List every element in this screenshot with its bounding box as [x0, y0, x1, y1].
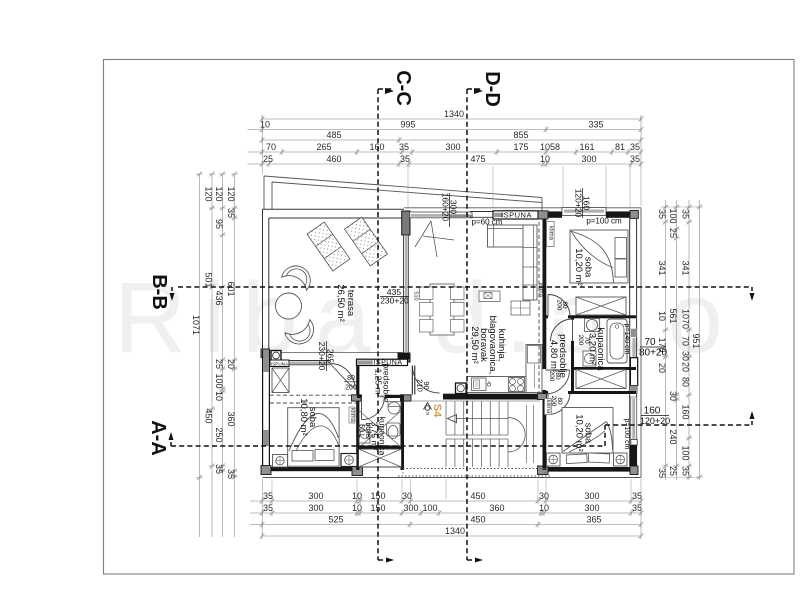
- svg-text:35: 35: [399, 142, 409, 152]
- roof canopy slant outer: [264, 176, 542, 198]
- svg-text:35: 35: [630, 154, 640, 164]
- ISPUNA infill panel top: [493, 211, 538, 219]
- corner pier NE: [630, 210, 638, 218]
- svg-text:335: 335: [588, 120, 603, 130]
- svg-text:klima: klima: [349, 408, 355, 423]
- dimension row y=140: [262, 139, 641, 141]
- guide lines to dimensions: [262, 115, 264, 174]
- bathroom right wall: [401, 395, 405, 471]
- stairs top boundary: [411, 400, 540, 402]
- bedroom BL bottom wall: [265, 467, 356, 471]
- round table: [276, 293, 302, 319]
- svg-text:120: 120: [204, 186, 214, 201]
- bedroom window p=100: [631, 397, 637, 440]
- svg-text:35: 35: [657, 209, 667, 219]
- svg-text:35: 35: [681, 209, 691, 219]
- svg-text:160: 160: [644, 406, 661, 417]
- svg-text:80+20: 80+20: [639, 348, 668, 359]
- bath top wall door gap: [548, 315, 568, 319]
- door hall to bathroom: [551, 319, 573, 341]
- svg-text:A-A: A-A: [147, 420, 169, 456]
- svg-text:30: 30: [668, 391, 678, 401]
- pier SW bedroom BL: [261, 466, 271, 475]
- svg-text:436: 436: [214, 290, 224, 305]
- grid cabinet: [511, 301, 530, 315]
- small bath door gap: [362, 394, 385, 398]
- svg-text:230+20: 230+20: [380, 296, 409, 306]
- dimension row y=536: [262, 535, 641, 537]
- kitchen bottom wall: [443, 394, 538, 400]
- right wall gray cap: [631, 329, 637, 337]
- kitchen counter: [467, 377, 526, 393]
- svg-text:10: 10: [352, 491, 362, 501]
- svg-text:1071: 1071: [191, 315, 201, 335]
- svg-text:200: 200: [548, 371, 555, 382]
- svg-text:120+20: 120+20: [640, 416, 670, 426]
- svg-text:300: 300: [308, 503, 323, 513]
- svg-text:120+20: 120+20: [574, 189, 584, 218]
- svg-text:601: 601: [226, 281, 236, 296]
- bedroom BL door leaf and arc: [330, 364, 355, 389]
- svg-text:300: 300: [584, 491, 599, 501]
- pier kitchen wall east: [538, 394, 547, 400]
- crescent chair 1: [281, 260, 316, 292]
- washbasin: [585, 319, 600, 332]
- klima bedroom BL: [349, 407, 355, 423]
- roof overhang bottom: [263, 477, 642, 479]
- svg-text:80: 80: [347, 375, 355, 382]
- dimension row y=164: [248, 163, 642, 165]
- svg-text:35: 35: [263, 503, 273, 513]
- shower diagonals: [360, 411, 402, 447]
- ISPUNA big panel hall: [357, 359, 408, 365]
- sink: [472, 378, 487, 391]
- svg-text:10: 10: [352, 503, 362, 513]
- svg-text:561: 561: [668, 308, 678, 323]
- svg-text:10: 10: [540, 154, 550, 164]
- svg-text:160+20: 160+20: [441, 193, 451, 222]
- svg-text:230+20: 230+20: [317, 342, 327, 371]
- bedroom BL left wall double line: [262, 350, 264, 466]
- svg-text:p=140 cm: p=140 cm: [623, 324, 630, 355]
- bed TR: [570, 230, 628, 283]
- bathroom bottom wall: [571, 367, 636, 370]
- dimension row y=119: [262, 118, 641, 120]
- svg-text:1340: 1340: [445, 526, 465, 536]
- svg-text:95: 95: [214, 219, 224, 229]
- svg-text:30: 30: [539, 491, 549, 501]
- svg-text:265: 265: [316, 142, 331, 152]
- svg-text:450: 450: [470, 515, 485, 525]
- svg-text:240: 240: [668, 429, 678, 444]
- svg-text:300: 300: [581, 154, 596, 164]
- corner sofa horizontal: [488, 225, 525, 247]
- svg-text:210: 210: [416, 379, 425, 392]
- svg-text:20: 20: [657, 363, 667, 373]
- beam line over kitchen: [538, 222, 540, 394]
- svg-text:klima: klima: [547, 226, 553, 241]
- svg-text:35: 35: [263, 491, 273, 501]
- svg-text:300: 300: [308, 491, 323, 501]
- terrace floor edge: [263, 352, 403, 354]
- svg-text:100: 100: [668, 208, 678, 223]
- stove: [509, 378, 525, 392]
- door hall to bedroom BR: [548, 393, 570, 415]
- svg-text:35: 35: [632, 503, 642, 513]
- sun lounger 1: [307, 222, 350, 271]
- hall/bath wall vertical: [571, 341, 574, 394]
- dimension column x=689: [688, 200, 690, 480]
- dimension column x=222.5: [222, 174, 224, 537]
- dimension column x=676.5: [676, 200, 678, 480]
- dimension row y=513: [250, 512, 641, 514]
- svg-text:365: 365: [586, 515, 601, 525]
- svg-text:160: 160: [681, 404, 691, 419]
- svg-text:855: 855: [513, 130, 528, 140]
- svg-text:25: 25: [263, 154, 273, 164]
- stairs mid rails: [446, 434, 508, 436]
- svg-text:10: 10: [214, 391, 224, 401]
- door living to hall: [546, 370, 570, 394]
- svg-text:951: 951: [691, 333, 701, 348]
- pier top of living window: [402, 211, 410, 235]
- svg-text:ISPUNA: ISPUNA: [271, 361, 289, 366]
- small bath bottom wall: [357, 446, 403, 449]
- column w circle terrace: [271, 351, 281, 361]
- klima unit top: [547, 222, 555, 247]
- svg-text:70: 70: [644, 337, 656, 348]
- svg-text:35: 35: [400, 154, 410, 164]
- dimension column x=234.5: [234, 174, 236, 537]
- svg-text:p=100 cm: p=100 cm: [586, 217, 622, 226]
- small bath door arc: [362, 397, 385, 420]
- small bath top wall: [357, 395, 403, 398]
- wardrobe BL: [272, 368, 289, 393]
- window end cap: [631, 440, 637, 446]
- terrace door arc: [413, 366, 440, 393]
- page frame: [104, 60, 795, 575]
- svg-text:25: 25: [668, 228, 678, 238]
- kitchen island: [526, 345, 542, 393]
- svg-text:341: 341: [657, 260, 667, 275]
- sun lounger 2: [344, 217, 387, 266]
- svg-text:35: 35: [226, 208, 236, 218]
- stairs treads lower: [445, 439, 447, 467]
- dimension row y=152: [248, 151, 642, 153]
- svg-text:460: 460: [326, 154, 341, 164]
- bottom wall bedroom BR: [546, 467, 630, 472]
- bedroom BL window: [289, 360, 330, 362]
- svg-text:300: 300: [584, 503, 599, 513]
- right wall double line: [629, 218, 631, 466]
- svg-text:510: 510: [413, 291, 419, 300]
- dimension column x=212: [211, 174, 213, 537]
- svg-text:ISPUNA: ISPUNA: [501, 211, 532, 220]
- svg-text:29,50 m²: 29,50 m²: [469, 326, 480, 364]
- svg-text:10,80 m²: 10,80 m²: [298, 398, 309, 436]
- wardrobe TR: [576, 297, 626, 315]
- pier SW of bedroom BR: [538, 466, 549, 475]
- bedroom BL right wall: [356, 363, 359, 470]
- svg-text:100: 100: [681, 445, 691, 460]
- nightstand BL right: [341, 454, 357, 467]
- svg-text:10: 10: [657, 311, 667, 321]
- svg-text:995: 995: [400, 120, 415, 130]
- level symbol: [424, 403, 432, 410]
- top wall window p=60: [410, 212, 473, 218]
- right wall gray block: [630, 386, 637, 394]
- top window 160/120+20: [562, 208, 606, 216]
- roof overhang right: [640, 208, 642, 478]
- stairs treads upper: [445, 401, 447, 435]
- svg-text:250: 250: [214, 427, 224, 442]
- svg-text:35: 35: [632, 491, 642, 501]
- svg-text:341: 341: [681, 260, 691, 275]
- right wall white pier: [630, 358, 637, 386]
- porch dotted lines: [403, 468, 545, 470]
- svg-text:360: 360: [226, 411, 236, 426]
- TV cabinet: [479, 291, 500, 302]
- svg-text:35: 35: [226, 469, 236, 479]
- beam line over bedroom BL: [270, 394, 356, 396]
- svg-text:1058: 1058: [540, 142, 560, 152]
- svg-text:35: 35: [657, 468, 667, 478]
- svg-text:300: 300: [403, 503, 418, 513]
- svg-text:35: 35: [681, 466, 691, 476]
- svg-text:26,50 m²: 26,50 m²: [335, 284, 346, 322]
- svg-text:160: 160: [369, 142, 384, 152]
- top wall segment: [548, 211, 562, 217]
- pier left of stairs door: [352, 395, 362, 401]
- boiler bathroom: [583, 351, 596, 366]
- svg-text:C-C: C-C: [392, 70, 414, 106]
- svg-text:175: 175: [513, 142, 528, 152]
- pier NW bedroom BL: [261, 349, 270, 358]
- svg-text:100: 100: [214, 373, 224, 388]
- svg-text:S4: S4: [431, 404, 443, 418]
- svg-text:450: 450: [204, 408, 214, 423]
- ISPUNA small panel: [270, 360, 289, 367]
- section line B-B: [178, 286, 752, 288]
- bathtub: [607, 319, 627, 363]
- living-terrace window: [403, 235, 405, 353]
- svg-text:35: 35: [214, 464, 224, 474]
- dimension column x=199.5: [199, 174, 201, 537]
- svg-text:80: 80: [681, 377, 691, 387]
- svg-text:30: 30: [402, 491, 412, 501]
- svg-text:25: 25: [214, 359, 224, 369]
- stairs walk line + arrow: [456, 418, 508, 420]
- pier right of ISPUNA: [538, 211, 548, 219]
- pier SE corner: [630, 466, 638, 475]
- bed BL: [288, 408, 339, 467]
- svg-text:200: 200: [345, 385, 357, 392]
- svg-text:475: 475: [470, 154, 485, 164]
- svg-text:120: 120: [226, 186, 236, 201]
- svg-text:D-D: D-D: [481, 71, 503, 107]
- terrace parapet top: [263, 208, 405, 210]
- svg-text:20: 20: [226, 359, 236, 369]
- svg-text:70: 70: [681, 336, 691, 346]
- stairs U-turn arc: [508, 418, 525, 453]
- window tilt symbol: [415, 221, 431, 247]
- svg-text:35: 35: [630, 142, 640, 152]
- top wall segment 2: [606, 211, 630, 217]
- svg-text:200: 200: [556, 300, 563, 311]
- svg-text:120: 120: [214, 186, 224, 201]
- pier bottom of living window: [398, 353, 410, 362]
- svg-text:20: 20: [681, 362, 691, 372]
- svg-text:485: 485: [326, 130, 341, 140]
- svg-text:525: 525: [328, 515, 343, 525]
- dining chairs right: [451, 287, 465, 300]
- bathroom window p=140: [632, 338, 635, 357]
- svg-text:300: 300: [445, 142, 460, 152]
- dishwasher: [456, 383, 467, 394]
- void under stairs X-box: [359, 449, 402, 467]
- svg-text:360: 360: [489, 503, 504, 513]
- dining table: [430, 284, 454, 335]
- dimension column x=665.5: [665, 200, 667, 480]
- wall left of bedroom BR: [543, 390, 547, 470]
- svg-text:10: 10: [260, 120, 270, 130]
- nightstand BL left: [273, 455, 288, 468]
- svg-text:70: 70: [266, 142, 276, 152]
- WC small bath: [387, 423, 401, 436]
- terrace door pier: [399, 353, 411, 360]
- section line A-A (with jog): [171, 445, 605, 447]
- roof canopy slant inner: [272, 182, 542, 203]
- boiler small bath: [359, 425, 370, 443]
- pier at stairs door: [401, 395, 412, 401]
- svg-text:B-B: B-B: [148, 274, 170, 310]
- svg-text:81: 81: [615, 142, 625, 152]
- section line D-D: [466, 89, 468, 560]
- svg-text:p=100 cm: p=100 cm: [623, 419, 630, 450]
- door hall to bedroom TR: [548, 295, 570, 317]
- svg-text:10,20 m²: 10,20 m²: [573, 248, 584, 286]
- nightstand BR right: [614, 453, 628, 466]
- BR top wall door gap: [548, 391, 568, 395]
- svg-text:200: 200: [550, 396, 557, 407]
- klima hall: [545, 399, 552, 415]
- svg-text:501: 501: [204, 272, 214, 287]
- dimension row y=501: [250, 500, 641, 502]
- canopy left edge: [263, 176, 265, 209]
- svg-text:klima: klima: [537, 283, 543, 298]
- bed BR: [562, 408, 613, 454]
- dining chairs left: [420, 287, 434, 300]
- hall right wall thin: [411, 366, 413, 395]
- canopy right edge: [541, 198, 543, 212]
- svg-text:p=60 cm: p=60 cm: [472, 218, 503, 227]
- right wall solid segment 3: [630, 445, 637, 466]
- wardrobe BR: [576, 370, 626, 389]
- svg-text:450: 450: [470, 491, 485, 501]
- svg-text:200: 200: [577, 335, 584, 346]
- svg-text:1070: 1070: [681, 309, 691, 329]
- dimension row y=129.5: [248, 129, 642, 131]
- living/hall wall: [543, 219, 547, 370]
- svg-text:50 L: 50 L: [358, 424, 365, 438]
- roof overhang top: [404, 207, 641, 209]
- nightstand BR left: [547, 453, 561, 466]
- bathroom top wall: [544, 315, 636, 318]
- svg-text:25: 25: [668, 466, 678, 476]
- corner sofa vertical: [523, 225, 537, 300]
- svg-text:4,80 m²: 4,80 m²: [548, 340, 559, 372]
- crescent chair 2: [284, 318, 319, 350]
- washbasin small bath: [388, 402, 400, 414]
- svg-text:100: 100: [422, 503, 437, 513]
- svg-text:1340: 1340: [444, 109, 464, 119]
- section line C-C: [377, 89, 379, 560]
- svg-text:161: 161: [579, 142, 594, 152]
- pier SE bedroom BL: [352, 466, 363, 476]
- svg-text:10: 10: [539, 503, 549, 513]
- bedroom BR top wall: [544, 391, 636, 394]
- dimension row y=524.5: [250, 524, 641, 526]
- svg-text:30: 30: [681, 351, 691, 361]
- dimension column x=699.5: [699, 200, 701, 480]
